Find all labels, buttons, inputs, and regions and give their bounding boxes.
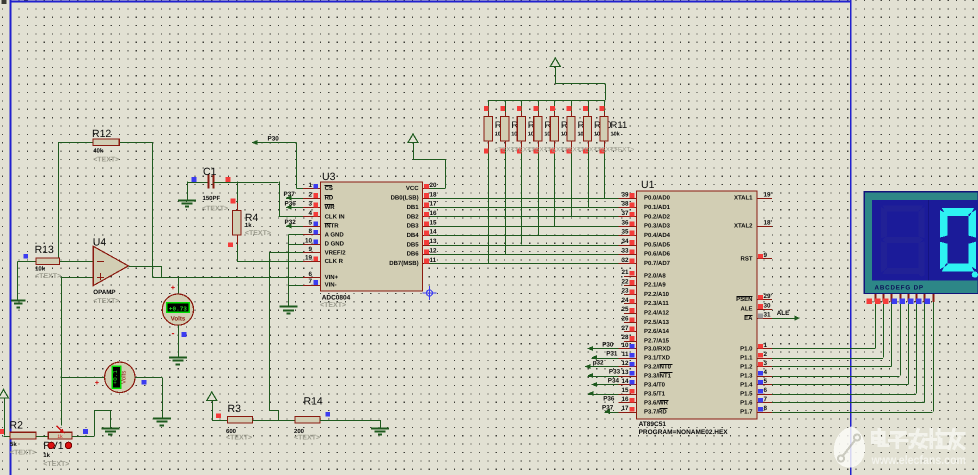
svg-text:10k: 10k	[35, 265, 46, 272]
svg-text:P32: P32	[285, 219, 297, 226]
svg-text:13: 13	[430, 238, 438, 245]
svg-text:WR: WR	[325, 204, 336, 211]
svg-text:+0.1: +0.1	[112, 370, 119, 385]
svg-text:ADC0804: ADC0804	[322, 294, 351, 301]
svg-text:+: +	[95, 378, 100, 387]
svg-text:P36: P36	[603, 396, 615, 403]
svg-text:ABCDEFG DP: ABCDEFG DP	[875, 284, 924, 291]
svg-text:10: 10	[305, 237, 313, 244]
svg-text:23: 23	[621, 288, 629, 295]
svg-text:DB1: DB1	[407, 204, 420, 211]
svg-text:3: 3	[764, 360, 768, 367]
svg-text:P1.7: P1.7	[740, 408, 753, 415]
svg-text:34: 34	[621, 238, 629, 245]
svg-text:36: 36	[621, 219, 629, 226]
svg-text:U1: U1	[641, 179, 655, 191]
svg-text:19': 19'	[764, 191, 773, 198]
svg-text:P1.3: P1.3	[740, 372, 753, 379]
svg-text:OPAMP: OPAMP	[93, 289, 115, 296]
svg-text:R2: R2	[10, 420, 24, 432]
svg-text:D GND: D GND	[325, 241, 345, 248]
svg-text:ALE: ALE	[777, 310, 790, 317]
svg-text:3: 3	[308, 201, 312, 208]
svg-text:R11: R11	[611, 120, 628, 131]
svg-text:10: 10	[621, 342, 629, 349]
svg-text:<TEXT>: <TEXT>	[43, 461, 69, 468]
svg-text:DB4: DB4	[407, 232, 420, 239]
svg-text:16: 16	[621, 396, 629, 403]
svg-text:P37: P37	[602, 405, 614, 412]
svg-text:P2.7/A15: P2.7/A15	[644, 337, 670, 344]
svg-text:7: 7	[764, 396, 768, 403]
svg-text:P36: P36	[285, 200, 297, 207]
svg-text:19: 19	[305, 255, 313, 262]
svg-text:14: 14	[430, 229, 438, 236]
svg-text:RST: RST	[741, 255, 753, 262]
svg-text:1k: 1k	[245, 222, 252, 229]
svg-text:CLK IN: CLK IN	[325, 213, 345, 220]
svg-text:31: 31	[764, 312, 772, 319]
svg-text:VREF/2: VREF/2	[325, 249, 347, 256]
svg-text:www.elecfans.com: www.elecfans.com	[871, 453, 967, 467]
svg-text:C1: C1	[203, 166, 217, 178]
svg-text:P2.6/A14: P2.6/A14	[644, 328, 670, 335]
svg-text:18': 18'	[764, 219, 773, 226]
svg-text:29': 29'	[764, 293, 773, 300]
svg-text:Volts: Volts	[120, 371, 127, 384]
svg-text:P30: P30	[268, 136, 280, 143]
svg-text:1k: 1k	[43, 452, 50, 459]
svg-text:7: 7	[308, 278, 312, 285]
svg-text:15: 15	[430, 219, 438, 226]
svg-text:P0.1/AD1: P0.1/AD1	[644, 204, 671, 211]
svg-text:35: 35	[621, 229, 629, 236]
svg-text:P3.3/INT1: P3.3/INT1	[644, 372, 672, 379]
svg-text:22: 22	[621, 278, 629, 285]
svg-text:1: 1	[764, 342, 768, 349]
svg-text:p32: p32	[593, 360, 604, 367]
svg-text:CS: CS	[325, 185, 333, 192]
svg-text:27: 27	[621, 325, 629, 332]
svg-text:P1.6: P1.6	[740, 399, 753, 406]
svg-text:P2.4/A12: P2.4/A12	[644, 310, 670, 317]
svg-text:24: 24	[621, 297, 629, 304]
svg-text:39: 39	[621, 191, 629, 198]
svg-text:ALE: ALE	[741, 306, 753, 313]
svg-text:DB6: DB6	[407, 251, 420, 258]
svg-text:P0.2/AD2: P0.2/AD2	[644, 213, 671, 220]
svg-text:P0.4/AD4: P0.4/AD4	[644, 232, 671, 239]
svg-text:33: 33	[621, 247, 629, 254]
svg-text:32: 32	[621, 257, 629, 264]
svg-text:P1.0: P1.0	[740, 345, 753, 352]
svg-text:PROGRAM=NONAME02.HEX: PROGRAM=NONAME02.HEX	[639, 429, 729, 436]
svg-text:6: 6	[764, 387, 768, 394]
svg-text:4: 4	[308, 210, 312, 217]
svg-text:17: 17	[430, 201, 438, 208]
svg-text:11: 11	[430, 257, 437, 264]
svg-text:U3: U3	[322, 171, 336, 183]
svg-text:P0.3/AD3: P0.3/AD3	[644, 223, 671, 230]
svg-text:DB7(MSB): DB7(MSB)	[389, 260, 418, 267]
svg-text:<TEXT>: <TEXT>	[93, 298, 119, 305]
svg-text:P3.4/T0: P3.4/T0	[644, 381, 666, 388]
svg-text:8: 8	[764, 405, 768, 412]
svg-text:<TEXT>: <TEXT>	[320, 302, 346, 309]
svg-text:8: 8	[308, 228, 312, 235]
svg-text:26: 26	[621, 316, 629, 323]
svg-text:+: +	[171, 283, 176, 292]
svg-text:9: 9	[764, 252, 768, 259]
svg-text:38: 38	[621, 201, 629, 208]
svg-text:18: 18	[430, 191, 438, 198]
svg-text:P37: P37	[284, 191, 296, 198]
svg-text:15: 15	[621, 387, 629, 394]
svg-text:<TEXT>: <TEXT>	[93, 157, 119, 164]
svg-text:R14: R14	[304, 396, 323, 408]
svg-text:30: 30	[764, 302, 772, 309]
svg-text:25: 25	[621, 306, 629, 313]
svg-text:VIN-: VIN-	[325, 281, 337, 288]
svg-text:1: 1	[308, 182, 312, 189]
svg-text:XTAL1: XTAL1	[734, 195, 753, 202]
svg-text:AT89C51: AT89C51	[639, 421, 667, 428]
svg-text:DB2: DB2	[407, 213, 420, 220]
svg-text:9: 9	[308, 246, 312, 253]
svg-text:R12: R12	[92, 128, 111, 140]
svg-text:10k: 10k	[611, 132, 621, 138]
svg-text:P3.0/RXD: P3.0/RXD	[644, 345, 671, 352]
svg-text:P0.6/AD6: P0.6/AD6	[644, 251, 671, 258]
svg-text:P0.7/AD7: P0.7/AD7	[644, 260, 671, 267]
svg-text:2: 2	[308, 191, 312, 198]
svg-text:P2.0/A8: P2.0/A8	[644, 272, 666, 279]
svg-text:EA: EA	[744, 315, 753, 322]
svg-text:37: 37	[621, 210, 629, 217]
svg-text:P3.7/RD: P3.7/RD	[644, 408, 667, 415]
svg-text:P34: P34	[608, 378, 620, 385]
svg-text:6: 6	[308, 271, 312, 278]
svg-text:XTAL2: XTAL2	[734, 223, 753, 230]
svg-text:5: 5	[764, 378, 768, 385]
svg-text:<TEXT>: <TEXT>	[226, 435, 252, 442]
svg-text:<TEXT>: <TEXT>	[202, 206, 228, 213]
svg-text:17: 17	[621, 405, 629, 412]
svg-text:5: 5	[308, 219, 312, 226]
svg-text:11: 11	[622, 351, 629, 358]
svg-text:P31: P31	[606, 351, 618, 358]
svg-text:<TEXT>: <TEXT>	[610, 147, 634, 154]
svg-text:P2.2/A10: P2.2/A10	[644, 291, 670, 298]
svg-text:P2.5/A13: P2.5/A13	[644, 319, 670, 326]
svg-text:P0.5/AD5: P0.5/AD5	[644, 241, 671, 248]
svg-text:12: 12	[621, 360, 629, 367]
svg-text:VCC: VCC	[406, 185, 419, 192]
svg-text:R13: R13	[35, 244, 54, 256]
svg-text:P1.1: P1.1	[740, 354, 753, 361]
svg-text:12: 12	[430, 247, 438, 254]
svg-text:U4: U4	[93, 237, 107, 249]
svg-text:R3: R3	[228, 403, 242, 415]
svg-text:<TEXT>: <TEXT>	[245, 230, 271, 237]
svg-text:13: 13	[621, 369, 629, 376]
svg-text:40k: 40k	[93, 147, 104, 154]
svg-text:2: 2	[764, 351, 768, 358]
svg-text:+0.73: +0.73	[169, 305, 187, 312]
svg-text:<TEXT>: <TEXT>	[294, 435, 320, 442]
svg-text:P0.0/AD0: P0.0/AD0	[644, 195, 671, 202]
svg-text:P1.2: P1.2	[740, 363, 753, 370]
svg-text:DB0(LSB): DB0(LSB)	[391, 195, 419, 202]
svg-text:P2.1/A9: P2.1/A9	[644, 282, 666, 289]
svg-text:-: -	[172, 328, 175, 338]
svg-text:4: 4	[764, 369, 768, 376]
svg-text:P33: P33	[609, 369, 621, 376]
svg-text:P2.3/A11: P2.3/A11	[644, 300, 669, 307]
svg-text:14: 14	[621, 378, 629, 385]
svg-text:Volts: Volts	[171, 315, 186, 322]
svg-text:PSEN: PSEN	[736, 296, 752, 303]
svg-text:1k: 1k	[57, 434, 63, 440]
svg-text:150PF: 150PF	[203, 195, 221, 202]
svg-text:A GND: A GND	[325, 231, 345, 238]
svg-text:28: 28	[621, 334, 629, 341]
svg-text:VIN+: VIN+	[325, 274, 339, 281]
svg-text:P1.5: P1.5	[740, 390, 753, 397]
svg-text:P30: P30	[602, 342, 614, 349]
svg-text:DB5: DB5	[407, 241, 420, 248]
svg-text:P3.5/T1: P3.5/T1	[644, 390, 666, 397]
svg-text:<TEXT>: <TEXT>	[10, 449, 36, 456]
svg-text:21: 21	[621, 269, 629, 276]
svg-text:CLK R: CLK R	[325, 258, 344, 265]
svg-text:5k: 5k	[10, 441, 17, 448]
svg-text:DB3: DB3	[407, 223, 420, 230]
svg-text:P3.1/TXD: P3.1/TXD	[644, 354, 671, 361]
svg-text:<TEXT>: <TEXT>	[35, 273, 61, 280]
svg-text:P1.4: P1.4	[740, 381, 753, 388]
